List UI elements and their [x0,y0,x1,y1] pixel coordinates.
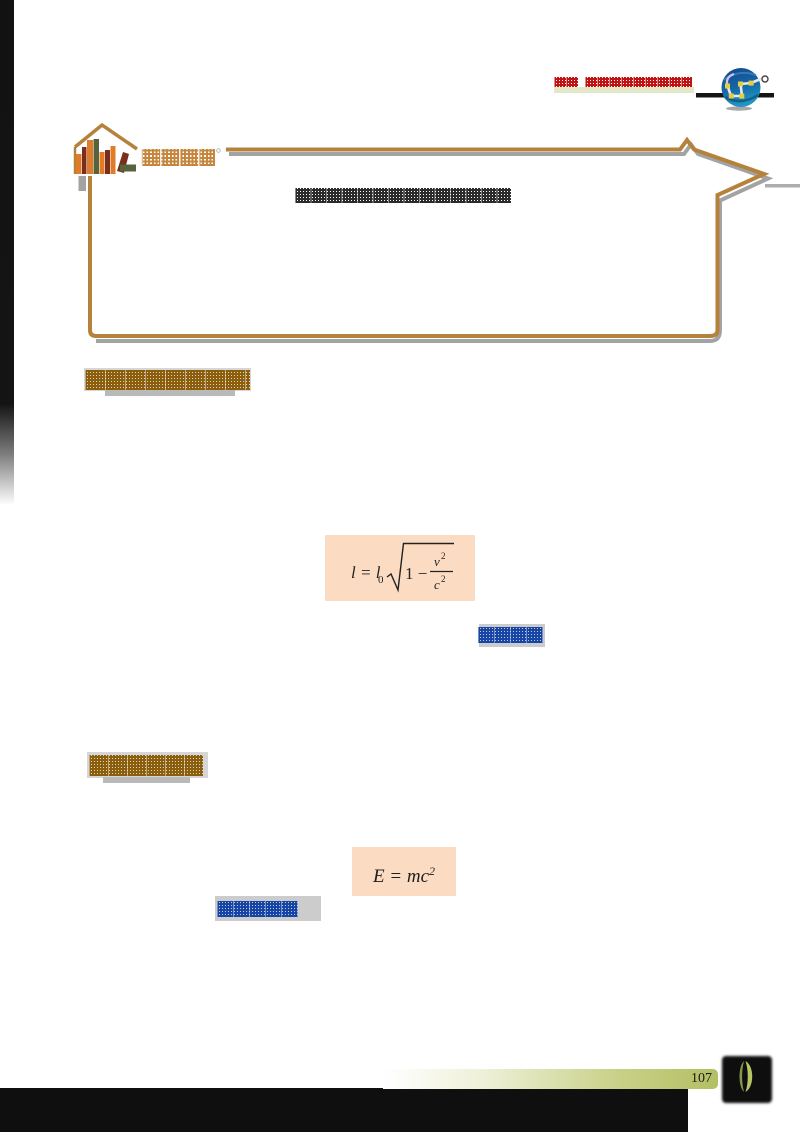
svg-text:2: 2 [441,574,446,584]
svg-text:0: 0 [378,574,384,586]
svg-text:c: c [434,577,440,592]
svg-text:1 −: 1 − [405,564,427,583]
svg-text:v: v [434,554,440,569]
svg-text:l = l: l = l [351,563,381,582]
svg-text:2: 2 [441,551,446,561]
